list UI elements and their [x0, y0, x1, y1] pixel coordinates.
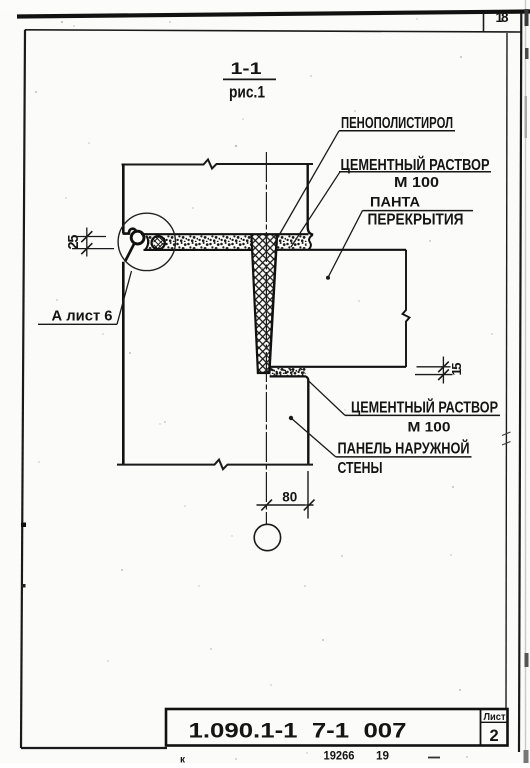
svg-text:М 100: М 100 [408, 418, 451, 434]
frame right inner line [519, 13, 521, 753]
title block list cell divider [481, 721, 508, 723]
floor slab right edge with break [403, 250, 410, 367]
filing column small marks [502, 432, 511, 445]
svg-text:ЦЕМЕНТНЫЙ РАСТВОР: ЦЕМЕНТНЫЙ РАСТВОР [351, 399, 498, 417]
label A list 6 underline [38, 323, 117, 325]
label panel outer wall underline [336, 456, 472, 458]
dimension 15 line [442, 357, 444, 384]
svg-text:1-1: 1-1 [231, 59, 262, 78]
dimension 80 right extension [307, 471, 309, 519]
frame left line [21, 30, 25, 748]
mortar left end crescent [145, 236, 148, 250]
svg-text:1.090.1-1 7-1 007: 1.090.1-1 7-1 007 [189, 719, 407, 742]
footer dash [428, 757, 440, 759]
svg-text:19266: 19266 [324, 750, 355, 762]
svg-text:15: 15 [449, 363, 464, 376]
label cement mortar upper leader [291, 172, 340, 247]
label cement mortar upper underline [339, 171, 491, 173]
foam strip bottom edge [257, 372, 271, 374]
svg-text:ПАНЕЛЬ НАРУЖНОЙ: ПАНЕЛЬ НАРУЖНОЙ [338, 439, 470, 457]
dimension 15 extension lines [415, 367, 453, 375]
gasket cord hatch [153, 237, 163, 249]
label perekrytiya rule [363, 210, 474, 212]
svg-text:19: 19 [376, 750, 389, 762]
label penopolistirol underline [339, 130, 455, 132]
frame cell divider for 18 [483, 13, 485, 32]
frame bottom line [21, 747, 167, 749]
joint sealing profile knob ring [131, 231, 144, 244]
foam strip left edge [251, 235, 258, 373]
svg-text:ПЕНОПОЛИСТИРОЛ: ПЕНОПОЛИСТИРОЛ [341, 115, 453, 132]
foam strip right edge / slab end face [269, 235, 277, 373]
lower wall outer face [122, 262, 125, 465]
label cement mortar lower leader [309, 381, 346, 416]
title block list divider [480, 709, 482, 746]
detail circle A [118, 213, 175, 270]
axis reference circle [254, 524, 280, 550]
label panel leader dot [289, 416, 293, 420]
section title underline [223, 78, 276, 80]
mortar bed top line [141, 233, 309, 235]
paper right edge artifacts [525, 0, 527, 763]
joint sealing profile tail [125, 244, 134, 262]
label plita leader [328, 211, 363, 278]
svg-text:М 100: М 100 [394, 175, 439, 191]
label plita leader dot [326, 276, 330, 280]
foam insulation strip (cross hatch) [251, 235, 277, 373]
floor slab bottom edge [270, 366, 406, 368]
svg-text:ПЕРЕКРЫТИЯ: ПЕРЕКРЫТИЯ [368, 212, 464, 229]
left frame tick marks [21, 523, 26, 528]
dimension 15 ticks [438, 362, 449, 380]
upper wall outer face [122, 164, 125, 234]
label cement mortar lower underline [345, 414, 500, 416]
svg-text:25: 25 [66, 235, 82, 250]
floor slab top edge [277, 249, 407, 251]
mortar bed stipple right piece [277, 235, 307, 248]
svg-text:А лист 6: А лист 6 [52, 308, 113, 325]
label panel leader [291, 418, 336, 457]
mortar bed bottom line left of foam [144, 249, 252, 251]
svg-text:СТЕНЫ: СТЕНЫ [338, 460, 383, 477]
svg-text:80: 80 [282, 490, 297, 505]
dimension 80 ticks [261, 500, 314, 511]
dimension 25 extension lines [72, 237, 114, 249]
lower mortar bed stipple [270, 368, 306, 376]
wall top cut line with break [122, 160, 314, 169]
dimension 25 line [86, 228, 88, 257]
svg-text:2: 2 [490, 727, 499, 745]
lower wall bottom cut line with break [117, 460, 313, 470]
lower wall inner face [307, 381, 309, 465]
modular axis line [265, 152, 267, 524]
frame inner top line [25, 30, 521, 32]
mortar bed stipple left piece [149, 235, 252, 249]
svg-text:ПАНТА: ПАНТА [370, 195, 420, 210]
joint sealing profile ledge and hook [123, 229, 137, 234]
mortar right end drip notch [308, 235, 312, 250]
label A list 6 leader [117, 271, 132, 324]
svg-text:Лист: Лист [484, 712, 506, 723]
title block box [166, 709, 508, 746]
frame top thick line [17, 12, 530, 17]
dimension 80 line [257, 504, 314, 506]
label penopolistirol leader [274, 131, 339, 244]
frame filing column line [506, 33, 507, 708]
svg-text:рис.1: рис.1 [229, 83, 265, 102]
gasket cord circle [152, 236, 165, 249]
svg-text:18: 18 [496, 10, 509, 25]
lower mortar bed bottom line with flare [270, 376, 309, 381]
dimension 25 ticks [81, 231, 92, 254]
upper wall inner face with flare [308, 164, 314, 235]
